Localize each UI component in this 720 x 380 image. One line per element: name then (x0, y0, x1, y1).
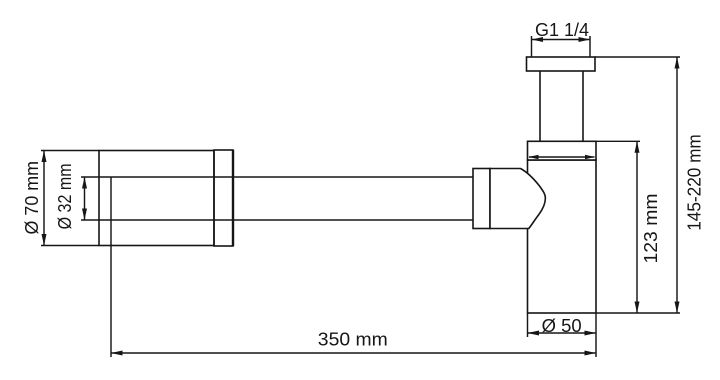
svg-text:G1 1/4: G1 1/4 (535, 20, 589, 40)
svg-text:123 mm: 123 mm (641, 194, 661, 264)
svg-text:Ø 32 mm: Ø 32 mm (55, 163, 75, 229)
svg-text:Ø 50: Ø 50 (542, 316, 582, 336)
svg-text:Ø 70 mm: Ø 70 mm (22, 161, 42, 235)
svg-text:350 mm: 350 mm (318, 330, 388, 350)
svg-text:145-220 mm: 145-220 mm (684, 134, 704, 231)
